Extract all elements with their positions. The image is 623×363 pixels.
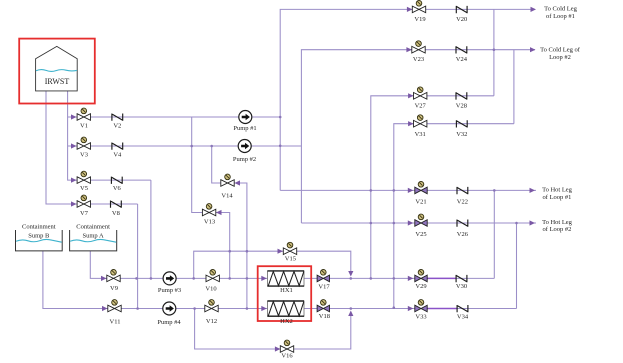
svg-text:V19: V19	[414, 16, 425, 23]
svg-text:V10: V10	[205, 286, 216, 293]
svg-text:V23: V23	[413, 56, 424, 63]
svg-text:V6: V6	[113, 185, 122, 192]
svg-text:Containment: Containment	[76, 224, 110, 231]
svg-text:V5: V5	[80, 185, 88, 192]
svg-text:Pump #2: Pump #2	[233, 156, 256, 163]
svg-text:of Loop #1: of Loop #1	[543, 194, 572, 201]
svg-text:V24: V24	[456, 56, 468, 63]
svg-text:Sump A: Sump A	[83, 232, 104, 239]
svg-text:HX1: HX1	[280, 287, 293, 294]
svg-text:V21: V21	[415, 198, 426, 205]
svg-text:of Loop #1: of Loop #1	[546, 13, 575, 20]
svg-text:of Loop #2: of Loop #2	[543, 226, 572, 233]
svg-text:V13: V13	[204, 219, 215, 226]
svg-text:V4: V4	[113, 152, 122, 159]
svg-text:V17: V17	[318, 284, 330, 291]
svg-text:V25: V25	[415, 231, 426, 238]
svg-text:To Hot Leg: To Hot Leg	[542, 187, 573, 194]
svg-text:V30: V30	[456, 283, 467, 290]
svg-text:Pump #1: Pump #1	[233, 125, 256, 132]
svg-text:V33: V33	[415, 314, 426, 321]
svg-text:To Hot Leg: To Hot Leg	[542, 219, 573, 226]
svg-text:V12: V12	[206, 318, 217, 325]
svg-text:Containment: Containment	[22, 224, 56, 231]
svg-text:V20: V20	[456, 16, 467, 23]
svg-text:V27: V27	[415, 102, 427, 109]
svg-text:V16: V16	[281, 353, 293, 360]
svg-text:V3: V3	[80, 152, 88, 159]
svg-text:IRWST: IRWST	[45, 77, 70, 86]
svg-text:V26: V26	[457, 231, 469, 238]
svg-text:V29: V29	[415, 283, 426, 290]
svg-text:V14: V14	[221, 193, 233, 200]
svg-text:V2: V2	[113, 123, 121, 130]
svg-text:HX2: HX2	[280, 318, 293, 325]
svg-text:V7: V7	[80, 210, 89, 217]
svg-text:V31: V31	[415, 131, 426, 138]
svg-text:V8: V8	[112, 210, 120, 217]
svg-text:V1: V1	[80, 123, 88, 130]
svg-text:V32: V32	[456, 131, 467, 138]
svg-text:V34: V34	[457, 314, 469, 321]
svg-text:V9: V9	[110, 285, 118, 292]
svg-text:To Cold Leg: To Cold Leg	[544, 5, 578, 12]
svg-text:Pump #3: Pump #3	[158, 287, 181, 294]
svg-text:V11: V11	[110, 318, 121, 325]
svg-text:To Cold Leg of: To Cold Leg of	[540, 46, 581, 53]
svg-text:Sump B: Sump B	[28, 232, 50, 239]
svg-text:Loop #2: Loop #2	[549, 54, 571, 61]
svg-text:V28: V28	[456, 102, 467, 109]
svg-text:V22: V22	[457, 198, 468, 205]
svg-text:V18: V18	[319, 313, 330, 320]
svg-text:Pump #4: Pump #4	[157, 319, 181, 326]
svg-text:V15: V15	[285, 255, 296, 262]
